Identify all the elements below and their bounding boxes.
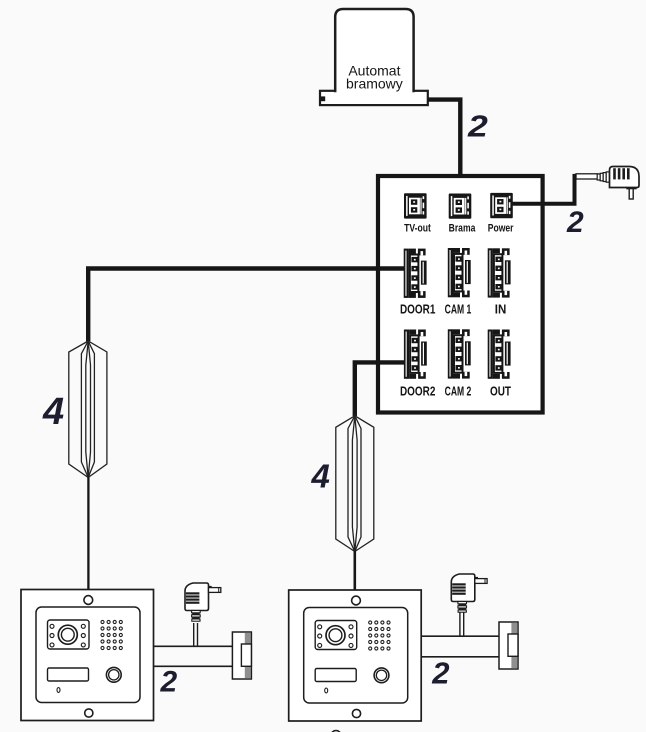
svg-text:TV-out: TV-out (404, 223, 431, 235)
svg-text:2: 2 (431, 656, 449, 691)
svg-text:4: 4 (311, 457, 330, 494)
svg-text:DOOR2: DOOR2 (400, 385, 435, 398)
svg-text:IN: IN (495, 302, 507, 317)
svg-text:CAM 2: CAM 2 (445, 385, 472, 399)
svg-text:OUT: OUT (490, 385, 511, 398)
svg-text:2: 2 (467, 109, 488, 143)
svg-text:CAM 1: CAM 1 (445, 303, 472, 317)
svg-text:bramowy: bramowy (346, 75, 403, 91)
svg-text:4: 4 (42, 391, 64, 433)
svg-text:Power: Power (488, 223, 514, 235)
svg-text:Brama: Brama (449, 223, 476, 235)
svg-text:2: 2 (566, 206, 584, 239)
svg-text:DOOR1: DOOR1 (400, 304, 436, 317)
svg-text:2: 2 (160, 666, 178, 699)
